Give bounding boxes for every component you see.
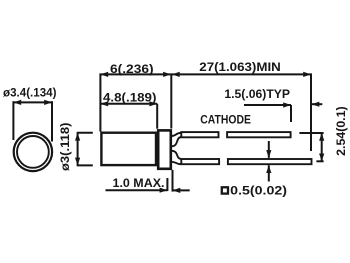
svg-text:2.54(0.1): 2.54(0.1) — [336, 106, 348, 156]
svg-text:0.5(0.02): 0.5(0.02) — [230, 186, 287, 198]
svg-text:1.0 MAX.: 1.0 MAX. — [113, 178, 165, 190]
svg-text:ø3(.118): ø3(.118) — [60, 122, 72, 171]
svg-text:1.5(.06)TYP: 1.5(.06)TYP — [224, 89, 290, 101]
svg-text:ø3.4(.134): ø3.4(.134) — [3, 88, 57, 100]
svg-text:6(.236): 6(.236) — [110, 64, 154, 76]
svg-text:CATHODE: CATHODE — [200, 112, 251, 126]
svg-text:4.8(.189): 4.8(.189) — [103, 93, 157, 105]
svg-text:27(1.063)MIN: 27(1.063)MIN — [199, 62, 280, 74]
